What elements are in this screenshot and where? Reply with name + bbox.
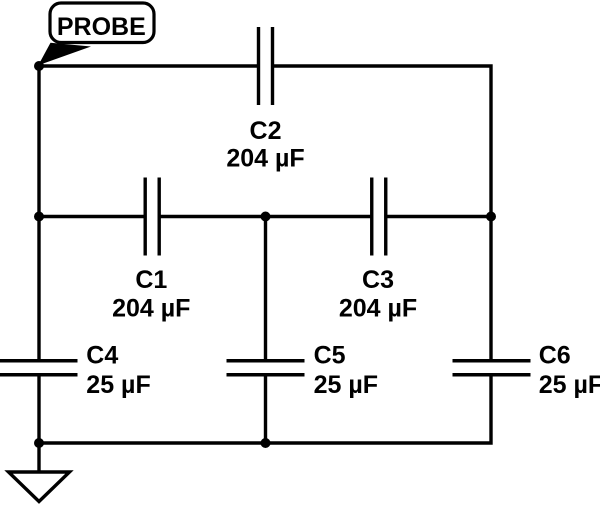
svg-text:C3: C3: [362, 266, 394, 294]
svg-text:C5: C5: [314, 341, 346, 369]
svg-text:204 µF: 204 µF: [226, 144, 304, 172]
svg-text:PROBE: PROBE: [57, 13, 146, 41]
svg-text:25 µF: 25 µF: [86, 371, 150, 399]
svg-text:C2: C2: [250, 117, 282, 145]
svg-text:25 µF: 25 µF: [314, 371, 378, 399]
svg-text:204 µF: 204 µF: [112, 295, 190, 323]
svg-text:204 µF: 204 µF: [339, 295, 417, 323]
svg-text:C4: C4: [86, 341, 118, 369]
svg-text:25 µF: 25 µF: [539, 371, 600, 399]
svg-text:C1: C1: [135, 266, 167, 294]
svg-text:C6: C6: [539, 341, 571, 369]
